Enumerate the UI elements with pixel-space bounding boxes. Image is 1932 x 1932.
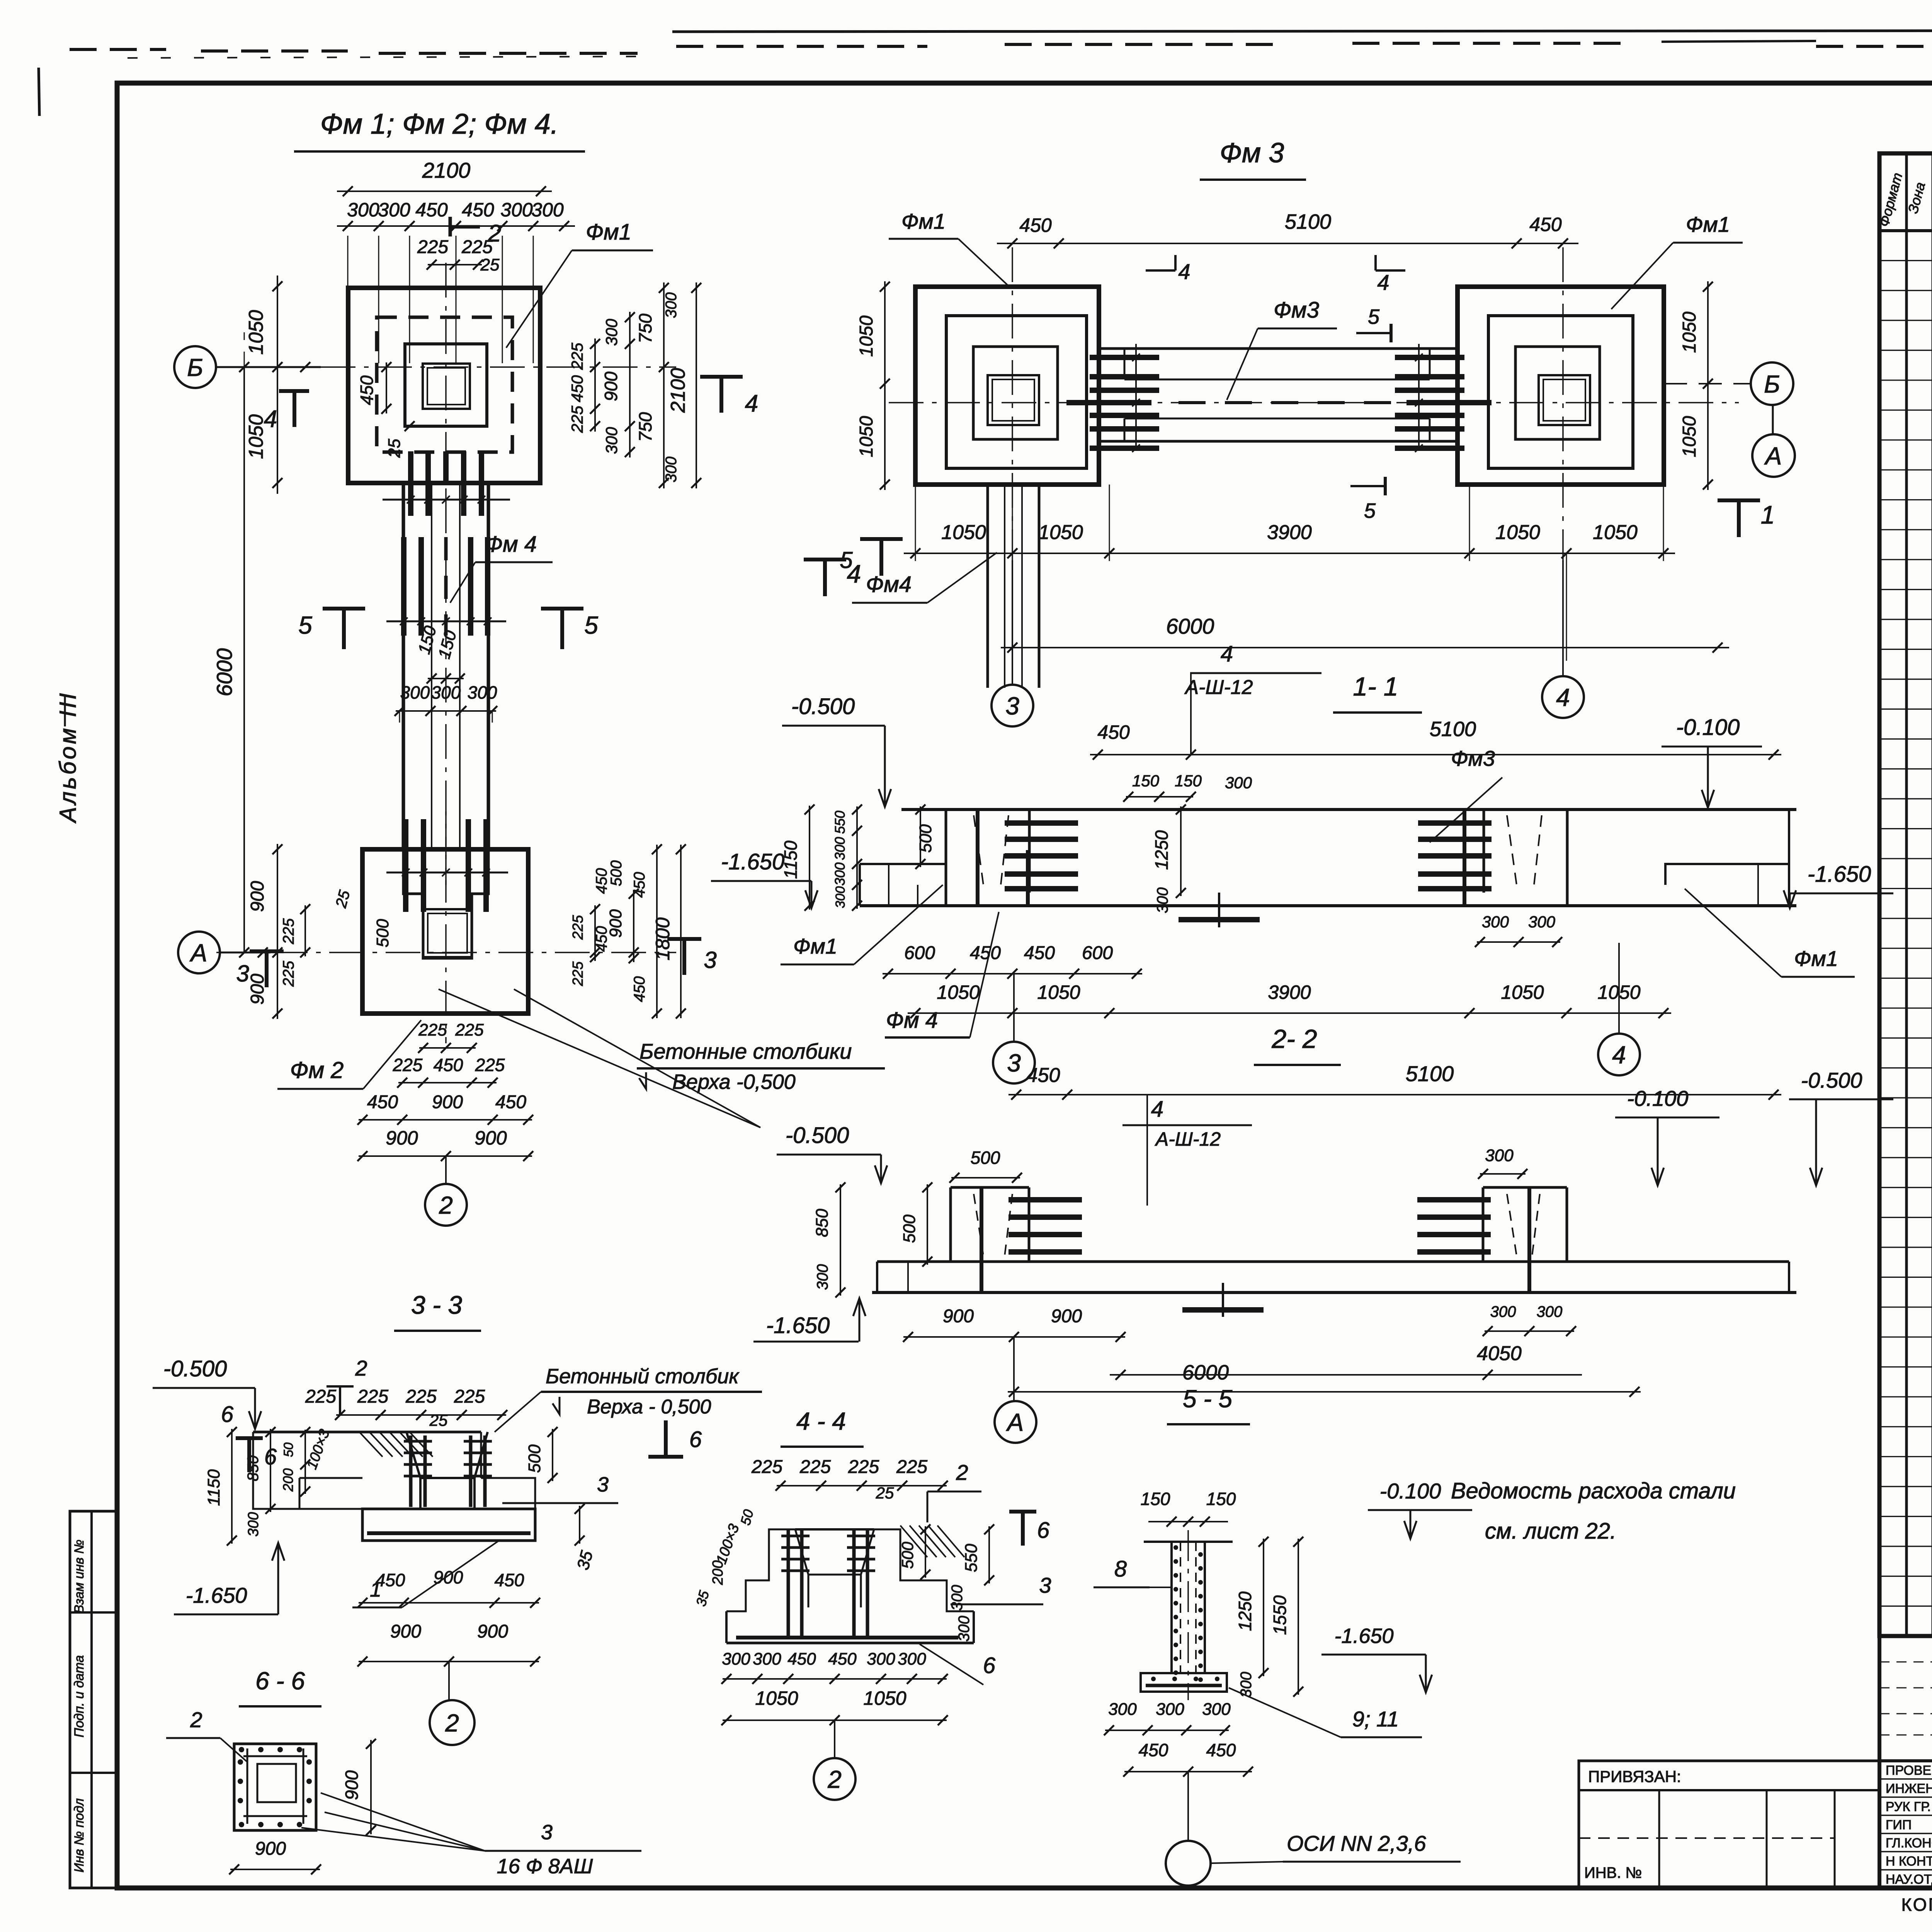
- svg-text:Б: Б: [1764, 370, 1780, 398]
- svg-text:300: 300: [602, 318, 621, 346]
- section 6-6 dim 900 right: [370, 1740, 372, 1834]
- svg-text:150: 150: [1175, 772, 1202, 790]
- plan B right dim 1050 1050: [1707, 281, 1709, 490]
- svg-text:6: 6: [1037, 1518, 1050, 1543]
- svg-text:6000: 6000: [1166, 614, 1214, 638]
- plan A view mark 4 up: [279, 389, 309, 393]
- svg-text:500: 500: [898, 1541, 917, 1569]
- plan B left dim 1050 1050: [884, 281, 886, 490]
- plan B beam centerline: [889, 402, 1739, 403]
- svg-text:25: 25: [429, 1411, 448, 1429]
- svg-text:300: 300: [400, 682, 430, 702]
- svg-text:300: 300: [1490, 1303, 1516, 1320]
- svg-text:1050: 1050: [1495, 521, 1540, 544]
- svg-text:-0.500: -0.500: [163, 1356, 227, 1381]
- svg-text:25: 25: [876, 1484, 894, 1502]
- svg-text:ОСИ NN 2,3,6: ОСИ NN 2,3,6: [1287, 1831, 1426, 1855]
- svg-text:5100: 5100: [1406, 1061, 1454, 1086]
- svg-text:Фм 4: Фм 4: [485, 532, 537, 557]
- svg-text:Фм3: Фм3: [1274, 298, 1319, 323]
- svg-text:225: 225: [455, 1020, 484, 1039]
- svg-text:225: 225: [280, 918, 297, 944]
- svg-text:5: 5: [1364, 499, 1376, 522]
- svg-text:225: 225: [570, 961, 586, 986]
- svg-text:4050: 4050: [1477, 1342, 1522, 1365]
- plan B section flags 5: [1356, 332, 1391, 334]
- svg-text:225: 225: [751, 1457, 782, 1477]
- plan A stem rebar middle cluster: [401, 537, 406, 636]
- svg-text:225: 225: [357, 1386, 388, 1407]
- svg-text:КОПИРОВАЛ: ЛОГИНОВА: КОПИРОВАЛ: ЛОГИНОВА: [1901, 1895, 1932, 1915]
- svg-text:300: 300: [1156, 1700, 1184, 1719]
- section 1-1 axis circles 3 and 4: [1013, 974, 1015, 1041]
- svg-text:300: 300: [245, 1512, 262, 1536]
- svg-text:450: 450: [787, 1650, 816, 1668]
- section 2-2 axis circle А: [1013, 1337, 1015, 1400]
- svg-text:500: 500: [900, 1214, 919, 1243]
- svg-text:1050: 1050: [1038, 521, 1083, 544]
- svg-text:3: 3: [1039, 1573, 1051, 1597]
- svg-text:4 - 4: 4 - 4: [796, 1407, 846, 1435]
- svg-text:Фм1: Фм1: [793, 934, 837, 958]
- svg-text:4: 4: [1612, 1041, 1626, 1069]
- svg-text:ПРОВЕР.: ПРОВЕР.: [1886, 1763, 1932, 1778]
- section 1-1 left dims rotated: [809, 806, 810, 910]
- plan B rebar left end: [1090, 355, 1159, 360]
- svg-text:Фм1: Фм1: [1794, 946, 1838, 971]
- section 3-3 rebar columns: [409, 1435, 413, 1507]
- svg-text:300: 300: [1225, 774, 1252, 792]
- plan B flags 4: [1146, 269, 1175, 272]
- plan A column double square: [423, 364, 470, 409]
- svg-text:-0.500: -0.500: [786, 1123, 849, 1148]
- section 2-2 dim 500 left: [927, 1184, 928, 1265]
- svg-text:300: 300: [1154, 888, 1171, 913]
- svg-text:5 - 5: 5 - 5: [1183, 1385, 1232, 1413]
- svg-text:450: 450: [357, 375, 377, 405]
- svg-text:450: 450: [1206, 1740, 1236, 1760]
- plan B axis circles 3 and 4: [1012, 560, 1013, 685]
- svg-text:300: 300: [602, 427, 621, 454]
- svg-text:300: 300: [468, 682, 497, 702]
- svg-text:Бетонный столбик: Бетонный столбик: [546, 1365, 740, 1388]
- svg-text:150: 150: [1132, 772, 1160, 790]
- svg-text:ГЛ.КОНСТ: ГЛ.КОНСТ: [1886, 1836, 1932, 1850]
- svg-text:750: 750: [635, 313, 655, 343]
- svg-text:2- 2: 2- 2: [1271, 1024, 1317, 1054]
- plan A dim 450 25 left inner: [386, 362, 387, 413]
- svg-text:600: 600: [904, 943, 935, 963]
- svg-text:300: 300: [347, 199, 379, 221]
- svg-text:1050: 1050: [937, 981, 980, 1003]
- plan A axis circle Б: [174, 346, 216, 388]
- plan B column centerlines vertical: [1012, 247, 1013, 560]
- section 2-2 pier outline: [949, 1187, 952, 1262]
- spec table column lines: [1905, 153, 1908, 1636]
- svg-text:900: 900: [247, 881, 268, 912]
- svg-text:450: 450: [495, 1092, 526, 1112]
- svg-text:1: 1: [1761, 500, 1775, 529]
- svg-text:5: 5: [298, 611, 312, 639]
- section 5-5 top line: [1144, 1541, 1233, 1543]
- section 3-3 step outline right: [481, 1478, 535, 1509]
- svg-text:1150: 1150: [204, 1469, 223, 1506]
- svg-text:1250: 1250: [1235, 1591, 1255, 1631]
- section 6-6 outer square: [234, 1744, 316, 1830]
- svg-text:1050: 1050: [245, 414, 267, 459]
- svg-text:1050: 1050: [863, 1687, 906, 1709]
- svg-text:Бетонные столбики: Бетонные столбики: [639, 1039, 852, 1063]
- plan A stem inner lines: [431, 483, 432, 849]
- svg-text:3: 3: [704, 947, 716, 973]
- svg-text:4: 4: [745, 390, 758, 417]
- section 5-5 base slab: [1141, 1673, 1227, 1692]
- section 4-4 hatch: [900, 1526, 927, 1557]
- svg-text:225: 225: [799, 1457, 831, 1477]
- svg-text:300: 300: [1537, 1303, 1563, 1320]
- svg-text:2: 2: [439, 1191, 453, 1219]
- svg-text:2: 2: [956, 1460, 968, 1485]
- svg-text:Верха -0,500: Верха -0,500: [672, 1070, 796, 1094]
- svg-text:5: 5: [840, 547, 853, 573]
- svg-text:2: 2: [355, 1356, 367, 1380]
- svg-text:750: 750: [635, 412, 655, 442]
- title block staff rows: [1879, 1778, 1932, 1780]
- section 5-5 dims right 1250 1550 300: [1263, 1539, 1264, 1676]
- svg-text:450: 450: [1529, 214, 1562, 235]
- svg-text:900: 900: [342, 1770, 362, 1800]
- section 2-2 slab top line: [877, 1260, 1789, 1263]
- section 1-1 slab bottom line: [860, 904, 1796, 907]
- svg-text:25: 25: [385, 439, 404, 458]
- svg-text:Взам инв №: Взам инв №: [72, 1539, 87, 1613]
- plan A axis circle 2 bottom: [445, 1156, 447, 1183]
- plan B left footing squares: [915, 287, 1099, 485]
- svg-text:300: 300: [531, 199, 564, 221]
- section 4-4 dims right 500 550 300 300: [925, 1526, 926, 1578]
- svg-text:900: 900: [474, 1127, 507, 1149]
- svg-text:А: А: [1006, 1408, 1024, 1436]
- svg-text:6000: 6000: [212, 648, 236, 697]
- section 5-5 axis circle empty: [1187, 1772, 1189, 1840]
- svg-text:8: 8: [1114, 1556, 1127, 1582]
- svg-text:450: 450: [415, 199, 448, 221]
- svg-text:-1.650: -1.650: [721, 849, 784, 874]
- svg-text:5: 5: [584, 611, 598, 639]
- title block upper-left small rows: [1879, 1662, 1932, 1663]
- svg-text:150: 150: [1141, 1489, 1170, 1509]
- svg-text:1050: 1050: [1501, 981, 1544, 1003]
- svg-text:450: 450: [462, 199, 494, 221]
- svg-text:450: 450: [568, 375, 586, 402]
- section 3-3 dims left rotated: [231, 1429, 233, 1544]
- svg-text:200: 200: [710, 1560, 726, 1585]
- section 1-1 left steps: [860, 864, 946, 888]
- svg-text:Н КОНТР.: Н КОНТР.: [1886, 1854, 1932, 1869]
- plan A diagonals to бетонные столбики label: [439, 989, 760, 1128]
- svg-text:500: 500: [525, 1444, 544, 1473]
- plan A dashed middle square: [377, 317, 512, 452]
- svg-text:Фм1: Фм1: [901, 209, 946, 233]
- svg-text:Фм4: Фм4: [866, 572, 912, 597]
- svg-text:850: 850: [245, 1456, 262, 1481]
- svg-text:300: 300: [949, 1585, 966, 1611]
- svg-text:3: 3: [1005, 692, 1019, 720]
- section 5-5 wall rebar dots: [1173, 1545, 1178, 1550]
- svg-text:6: 6: [983, 1653, 996, 1678]
- svg-text:300: 300: [814, 1264, 831, 1290]
- section 1-1 left pier rebar hooks: [1005, 820, 1078, 826]
- privyazan box: [1579, 1761, 1879, 1888]
- section 3-3 neck trapezoid: [406, 1432, 420, 1509]
- svg-text:550: 550: [962, 1544, 981, 1572]
- svg-text:450: 450: [970, 943, 1001, 963]
- plan A left dims of bottom footing: [277, 844, 278, 1019]
- svg-text:225: 225: [475, 1055, 505, 1075]
- svg-text:Фм3: Фм3: [1451, 746, 1495, 770]
- svg-text:ПРИВЯЗАН:: ПРИВЯЗАН:: [1588, 1767, 1681, 1786]
- svg-text:1050: 1050: [941, 521, 986, 544]
- svg-text:900: 900: [943, 1306, 974, 1327]
- svg-text:4: 4: [1178, 259, 1190, 284]
- svg-text:300: 300: [722, 1650, 750, 1668]
- svg-text:25: 25: [480, 255, 500, 274]
- plan A bottom footing step outline: [403, 849, 488, 958]
- svg-text:450: 450: [1139, 1740, 1168, 1760]
- svg-text:5: 5: [1368, 305, 1380, 328]
- svg-text:-1.650: -1.650: [766, 1313, 830, 1338]
- svg-text:225: 225: [418, 1020, 447, 1039]
- svg-text:4: 4: [1556, 684, 1570, 711]
- plan A dim 6000 vertical: [243, 367, 245, 952]
- svg-text:-0.500: -0.500: [791, 694, 855, 719]
- svg-text:300: 300: [956, 1616, 973, 1642]
- section 3-3 step outline left: [253, 1432, 362, 1509]
- section 1-1 bottom rebar bars: [1179, 917, 1260, 922]
- section 2-2 right pier: [1482, 1187, 1485, 1262]
- svg-text:225: 225: [417, 237, 448, 257]
- plan A view mark Т4 right: [700, 375, 743, 379]
- svg-text:450: 450: [367, 1092, 398, 1112]
- svg-text:4: 4: [1377, 270, 1389, 294]
- section 4-4 flag 6 right: [1009, 1510, 1036, 1514]
- svg-text:1- 1: 1- 1: [1353, 672, 1398, 701]
- svg-text:1050: 1050: [755, 1687, 798, 1709]
- svg-text:900: 900: [386, 1127, 418, 1149]
- plan A bottom footing centerlines: [216, 952, 676, 953]
- svg-text:900: 900: [601, 371, 621, 401]
- title block outer area: [1879, 1636, 1932, 1888]
- plan B rebar right end: [1395, 355, 1464, 360]
- svg-text:Фм 2: Фм 2: [290, 1057, 344, 1083]
- svg-text:2: 2: [827, 1765, 842, 1793]
- svg-text:500: 500: [373, 919, 392, 947]
- section 2-2 right slab edge: [1788, 1262, 1790, 1293]
- svg-text:Подп. и дата: Подп. и дата: [72, 1655, 87, 1738]
- svg-text:5100: 5100: [1430, 718, 1476, 741]
- svg-text:Ведомость расхода стали: Ведомость расхода стали: [1451, 1478, 1736, 1503]
- section 2-2 bottom rebar bar: [1182, 1307, 1264, 1313]
- svg-text:225: 225: [848, 1457, 879, 1477]
- plan B view mark 5 bottom: [879, 539, 883, 576]
- plan A right dim chains: [594, 338, 596, 432]
- svg-text:300: 300: [833, 886, 848, 908]
- svg-text:450: 450: [631, 976, 648, 1002]
- plan B view mark Т1 right: [1718, 498, 1760, 502]
- svg-text:450: 450: [828, 1650, 857, 1668]
- svg-text:-0.100: -0.100: [1380, 1479, 1441, 1503]
- svg-text:450: 450: [495, 1570, 524, 1590]
- plan B axis Б and А circles: [1751, 362, 1793, 405]
- plan A bottom footing outer square Фм2: [362, 849, 528, 1014]
- svg-text:900: 900: [247, 974, 268, 1005]
- svg-text:300: 300: [867, 1650, 895, 1668]
- section 4-4 neck trapezoid: [795, 1529, 808, 1607]
- svg-text:1050: 1050: [245, 310, 267, 355]
- svg-text:450: 450: [1024, 943, 1055, 963]
- svg-text:Фм 3: Фм 3: [1220, 138, 1284, 168]
- svg-text:2100: 2100: [667, 368, 689, 413]
- svg-text:4: 4: [1221, 641, 1233, 667]
- svg-text:НАУ.ОТД.: НАУ.ОТД.: [1886, 1872, 1932, 1887]
- svg-text:1050: 1050: [856, 315, 877, 357]
- svg-text:-1.650: -1.650: [186, 1583, 247, 1607]
- svg-text:Фм1: Фм1: [1686, 212, 1730, 236]
- svg-text:225: 225: [568, 405, 586, 433]
- plan A stem outer lines: [402, 483, 405, 849]
- section 2-2 slab bottom line: [872, 1291, 1796, 1294]
- section 3-3 dims right 500 3 35: [552, 1429, 553, 1481]
- section 1-1 right pier outline: [1483, 810, 1485, 893]
- svg-text:300: 300: [1485, 1146, 1514, 1165]
- section 6-6 tie bars: [243, 1755, 307, 1757]
- svg-text:А: А: [1764, 442, 1782, 470]
- svg-text:600: 600: [1082, 943, 1113, 963]
- svg-text:Фм 1; Фм 2; Фм 4.: Фм 1; Фм 2; Фм 4.: [320, 108, 559, 140]
- svg-text:Б: Б: [187, 354, 203, 381]
- svg-text:3900: 3900: [1267, 521, 1312, 544]
- plan A view mark 3 right: [667, 937, 701, 941]
- svg-text:-0.500: -0.500: [1801, 1068, 1862, 1092]
- svg-text:300: 300: [753, 1650, 781, 1668]
- plan A bottom rebar cluster: [403, 819, 408, 912]
- svg-text:А-Ш-12: А-Ш-12: [1184, 676, 1253, 699]
- svg-text:6000: 6000: [1182, 1361, 1229, 1384]
- section 3-3 base slab: [362, 1509, 535, 1541]
- svg-text:3: 3: [1007, 1049, 1021, 1077]
- section 2-2 pier rebar hooks left: [1009, 1197, 1082, 1202]
- section 4-4 axis circle 2: [834, 1720, 835, 1757]
- plan A section flag 2 top: [449, 217, 452, 236]
- svg-text:225: 225: [568, 342, 586, 370]
- plan B view mark Т4 left: [804, 558, 846, 561]
- svg-text:Фм 4: Фм 4: [886, 1008, 938, 1033]
- section 3-3 axis circle 2: [448, 1662, 450, 1699]
- svg-text:225: 225: [405, 1386, 437, 1407]
- svg-text:1050: 1050: [1679, 311, 1700, 353]
- plan A bottom column double square: [423, 909, 472, 957]
- plan A view mark 3 left: [250, 949, 284, 953]
- svg-text:-0.100: -0.100: [1627, 1086, 1689, 1111]
- svg-text:1050: 1050: [1037, 981, 1080, 1003]
- svg-text:-1.650: -1.650: [1334, 1624, 1393, 1648]
- svg-text:200: 200: [280, 1468, 296, 1492]
- section 1-1 left pier outline: [945, 810, 947, 906]
- svg-text:900: 900: [606, 909, 625, 938]
- svg-text:300: 300: [1482, 913, 1509, 931]
- plan B witness lines to bottom chain: [915, 485, 916, 561]
- svg-text:9; 11: 9; 11: [1352, 1707, 1399, 1731]
- svg-text:150: 150: [1206, 1489, 1236, 1509]
- plan A outer square: [348, 288, 540, 483]
- svg-text:Инв № подл: Инв № подл: [72, 1798, 87, 1872]
- svg-text:300: 300: [1202, 1700, 1231, 1719]
- plan A axis circle А left: [178, 932, 220, 973]
- section 4-4 steps right: [874, 1529, 974, 1611]
- svg-text:450: 450: [376, 1570, 405, 1590]
- spec table header row line: [1879, 229, 1932, 232]
- svg-text:1050: 1050: [1593, 521, 1638, 544]
- scan noise left edge tick: [39, 68, 39, 116]
- svg-text:900: 900: [1051, 1306, 1082, 1327]
- svg-text:500: 500: [608, 861, 625, 886]
- svg-text:300: 300: [663, 293, 680, 318]
- svg-text:Фм1: Фм1: [586, 219, 631, 245]
- svg-text:300: 300: [898, 1650, 926, 1668]
- svg-text:-1.650: -1.650: [1808, 862, 1871, 887]
- svg-text:450: 450: [1019, 214, 1052, 236]
- plan B connecting beam outline: [1099, 347, 1458, 350]
- svg-text:3 - 3: 3 - 3: [411, 1291, 462, 1319]
- svg-text:А-Ш-12: А-Ш-12: [1155, 1128, 1221, 1150]
- svg-text:3: 3: [597, 1473, 609, 1496]
- svg-text:2: 2: [488, 220, 501, 247]
- left margin stamp strip: [70, 1511, 117, 1888]
- svg-text:-0.100: -0.100: [1676, 715, 1740, 740]
- spec table row lines: [1879, 260, 1932, 261]
- section 1-1 dim 1250 / 300 middle: [1180, 806, 1182, 896]
- svg-text:300: 300: [431, 682, 461, 702]
- svg-text:300: 300: [663, 457, 680, 483]
- svg-text:900: 900: [434, 1567, 463, 1587]
- svg-text:550: 550: [832, 811, 848, 834]
- svg-text:300: 300: [832, 862, 848, 886]
- section 4-4 rebar columns: [787, 1529, 790, 1638]
- svg-text:900: 900: [477, 1621, 508, 1642]
- spec table outer border: [1879, 153, 1932, 1636]
- svg-text:300: 300: [832, 837, 848, 860]
- svg-text:Альбом III: Альбом III: [55, 691, 81, 823]
- section 4-4 base plate: [725, 1611, 728, 1643]
- section 1-1 right steps: [1665, 864, 1789, 885]
- section 3-3 right flag 6: [664, 1420, 668, 1456]
- section 1-1 right pier rebar hooks: [1418, 820, 1492, 826]
- section 1-1 body top line: [901, 808, 1796, 811]
- plan A centerlines: [321, 366, 676, 368]
- svg-text:1050: 1050: [1679, 416, 1700, 457]
- section 2-2 dims 850 300 left: [840, 1184, 841, 1296]
- svg-text:225: 225: [896, 1457, 927, 1477]
- svg-text:6: 6: [221, 1402, 234, 1427]
- svg-text:50: 50: [281, 1442, 296, 1457]
- plan A stem rebar top cluster: [408, 451, 413, 516]
- svg-text:500: 500: [971, 1148, 1000, 1168]
- plan B beam end jogs: [1099, 349, 1124, 379]
- svg-text:6: 6: [689, 1427, 702, 1452]
- svg-text:16 Ф 8АШ: 16 Ф 8АШ: [497, 1855, 593, 1878]
- svg-text:3900: 3900: [1268, 981, 1311, 1003]
- svg-text:850: 850: [813, 1209, 832, 1237]
